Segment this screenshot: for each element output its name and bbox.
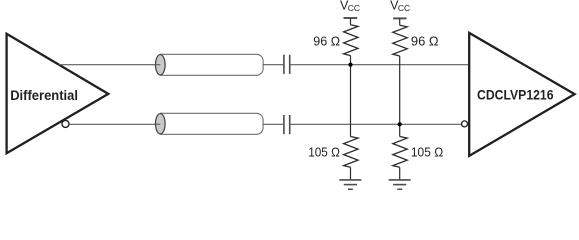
Vcc rail symbol 2 [393, 17, 406, 19]
transmission line T1 body [160, 54, 263, 75]
receiver triangle U2 (CDCLVP1216) [469, 33, 574, 156]
stub R3 to ground [350, 167, 352, 179]
svg-text:CC: CC [348, 3, 360, 13]
junction dot node B [398, 122, 402, 126]
capacitor C1 [284, 55, 290, 74]
resistor R2 96 ohm [393, 25, 407, 56]
resistor R1 96 ohm [344, 25, 358, 56]
resistor R4 105 ohm [393, 137, 407, 168]
wire T1 to capacitor C1 [263, 64, 283, 66]
wire bottom from bubble to coax T2 [69, 123, 160, 125]
ground 1 [339, 180, 361, 189]
svg-text:Differential: Differential [10, 88, 78, 103]
ground 2 [389, 180, 411, 189]
vertical net line 2 [399, 56, 401, 137]
svg-text:96 Ω: 96 Ω [411, 33, 439, 48]
junction dot node A [348, 63, 352, 67]
wire tip inside T2 cap [154, 123, 160, 125]
svg-text:105 Ω: 105 Ω [308, 144, 340, 159]
stub Vcc2 to R2 [399, 18, 401, 25]
capacitor C2 [284, 115, 290, 134]
vertical net line 1 [350, 56, 352, 137]
stub Vcc1 to R1 [350, 18, 352, 25]
receiver input bubble on U2 [462, 121, 468, 127]
wire tip inside T1 cap [154, 64, 160, 66]
driver triangle U1 (Differential) [7, 34, 109, 153]
Vcc rail symbol 1 [344, 17, 358, 19]
wire T2 to capacitor C2 [263, 123, 283, 125]
transmission line T1 left cap [156, 55, 166, 75]
inverting output bubble on U1 [62, 120, 69, 127]
wire top from driver to coax T1 [59, 64, 161, 66]
resistor R3 105 ohm [344, 137, 358, 168]
svg-text:CC: CC [398, 3, 410, 13]
svg-text:105 Ω: 105 Ω [411, 144, 444, 159]
svg-text:96 Ω: 96 Ω [313, 34, 340, 49]
wire C1 to receiver [291, 64, 469, 66]
svg-text:CDCLVP1216: CDCLVP1216 [477, 88, 554, 103]
stub R4 to ground [399, 167, 401, 179]
transmission line T2 left cap [156, 114, 166, 134]
transmission line T2 body [160, 113, 263, 134]
wire C2 to receiver bubble [291, 123, 462, 125]
